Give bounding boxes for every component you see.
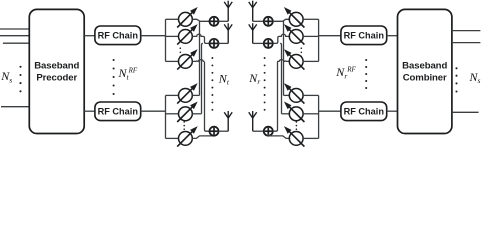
dots tx bottom ps group — [183, 121, 185, 130]
wire riser P5 to adder S2 — [202, 43, 203, 113]
rx antenna 1 — [249, 1, 257, 22]
wire tx bus stub 3 — [166, 60, 179, 62]
phase shifter Q1 — [284, 7, 305, 28]
wire output stream 1 — [452, 30, 481, 32]
dots rx rf chains — [365, 59, 367, 89]
phase shifter P6 — [177, 126, 198, 147]
wire adder S3 to antenna 3 — [218, 130, 228, 132]
wire Q2 to adder R2 — [273, 34, 290, 43]
phase shifter Q4 — [284, 83, 305, 104]
wire RF chain 1 to bus — [141, 35, 166, 37]
adder R1 — [264, 17, 273, 26]
dots rx antenna column — [264, 57, 266, 111]
phase shifter Q5 — [284, 102, 305, 123]
wire output stream 2 — [452, 42, 481, 44]
adder S3 — [210, 127, 219, 136]
wire P6 to adder S3 bottom — [192, 134, 214, 138]
wire rx antenna 2 to adder R2 — [253, 42, 264, 44]
wire P3 to adder S3 — [192, 60, 209, 132]
dots tx top ps group — [180, 47, 182, 57]
wire Q1 to adder R1 — [273, 19, 290, 21]
rf-chain R1 box — [341, 26, 387, 45]
wire input stream 3 — [3, 42, 30, 44]
phase shifter Q3 — [284, 49, 305, 70]
wire P4 output — [192, 94, 199, 96]
tx antenna 3 — [224, 111, 232, 131]
wire adder S1 to antenna 1 — [218, 20, 228, 22]
wire Q3 to adder R3 — [273, 60, 290, 132]
wire riser P4 to adder S1 — [199, 21, 201, 95]
rf-chain T2 box — [95, 102, 141, 121]
phase shifter P1 — [177, 7, 198, 28]
wire Q5 output — [282, 113, 291, 115]
svg-text:Combiner: Combiner — [403, 72, 447, 83]
svg-text:RF Chain: RF Chain — [98, 31, 139, 41]
dots input streams — [19, 66, 21, 93]
wire riser Q5 to adder R2 — [280, 43, 281, 113]
phase shifter P2 — [177, 24, 198, 44]
adder R3 — [264, 127, 273, 136]
wire adder S2 to antenna 2 — [218, 42, 228, 44]
dots tx antenna column — [211, 57, 213, 111]
wire rx bus stub 6 — [303, 137, 319, 139]
tx bus top — [165, 19, 167, 61]
wire precoder to RF chain 1 — [84, 35, 95, 37]
wire rx antenna 1 to adder R1 — [253, 20, 264, 22]
wire input stream 1 — [0, 28, 30, 30]
phase shifter P3 — [177, 49, 198, 70]
wire rx bus stub 2 — [303, 35, 319, 37]
svg-text:RF Chain: RF Chain — [344, 31, 385, 41]
wire rx bus stub 1 — [303, 18, 319, 20]
wire P5 output — [192, 113, 201, 115]
rf-chain T1 box — [95, 26, 141, 45]
wire bus to RF chain 3 — [319, 35, 341, 37]
wire tx bus stub 2 — [166, 35, 179, 37]
wire bus to RF chain 4 — [319, 110, 341, 112]
rf-chain R2 box — [341, 102, 387, 121]
svg-text:Precoder: Precoder — [36, 72, 77, 83]
adder S1 — [210, 17, 219, 26]
svg-text:Baseband: Baseband — [402, 61, 447, 72]
wire precoder to RF chain 2 — [84, 110, 95, 112]
svg-text:RF Chain: RF Chain — [98, 107, 139, 117]
svg-text:Baseband: Baseband — [34, 61, 79, 72]
baseband combiner box — [398, 9, 452, 133]
phase shifter P5 — [177, 102, 198, 123]
baseband precoder box — [29, 9, 84, 133]
wire Q6 to adder R3 bottom — [268, 134, 290, 138]
wire Q4 output — [284, 94, 291, 96]
tx bus bottom — [165, 95, 167, 138]
dots tx rf chains — [113, 59, 115, 95]
phase shifter Q6 — [284, 126, 305, 147]
wire output stream Ns — [452, 111, 479, 113]
wire input stream Ns — [1, 106, 30, 108]
wire RF chain 3 to combiner — [387, 35, 398, 37]
wire RF chain 4 to combiner — [387, 110, 398, 112]
dots rx top ps group — [301, 47, 303, 57]
wire P2 to adder S2 — [192, 34, 209, 43]
wire tx bus stub 6 — [166, 137, 179, 139]
wire rx antenna 3 to adder R3 — [253, 130, 264, 132]
wire input stream 2 — [0, 35, 30, 37]
adder R2 — [264, 39, 273, 48]
phase shifter P4 — [177, 83, 198, 104]
wire tx bus stub 4 — [166, 94, 179, 96]
phase shifter Q2 — [284, 24, 305, 44]
rx bus top — [318, 19, 320, 61]
wire rx bus stub 5 — [303, 113, 319, 115]
wire RF chain 2 to bus — [141, 110, 166, 112]
wire rx bus stub 4 — [303, 94, 319, 96]
rx antenna 3 — [249, 111, 257, 131]
wire rx bus stub 3 — [303, 60, 319, 62]
rx antenna 2 — [249, 23, 257, 43]
wire P1 to adder S1 — [192, 19, 209, 21]
wire riser Q4 to adder R1 — [283, 21, 285, 95]
adder S2 — [210, 39, 219, 48]
tx antenna 1 — [224, 1, 232, 22]
wire tx bus stub 1 — [166, 18, 179, 20]
rx bus bottom — [318, 95, 320, 138]
svg-text:RF Chain: RF Chain — [344, 107, 385, 117]
dots output streams — [455, 67, 457, 92]
wire tx bus stub 5 — [166, 113, 179, 115]
dots rx bottom ps group — [296, 121, 298, 130]
tx antenna 2 — [224, 23, 232, 43]
